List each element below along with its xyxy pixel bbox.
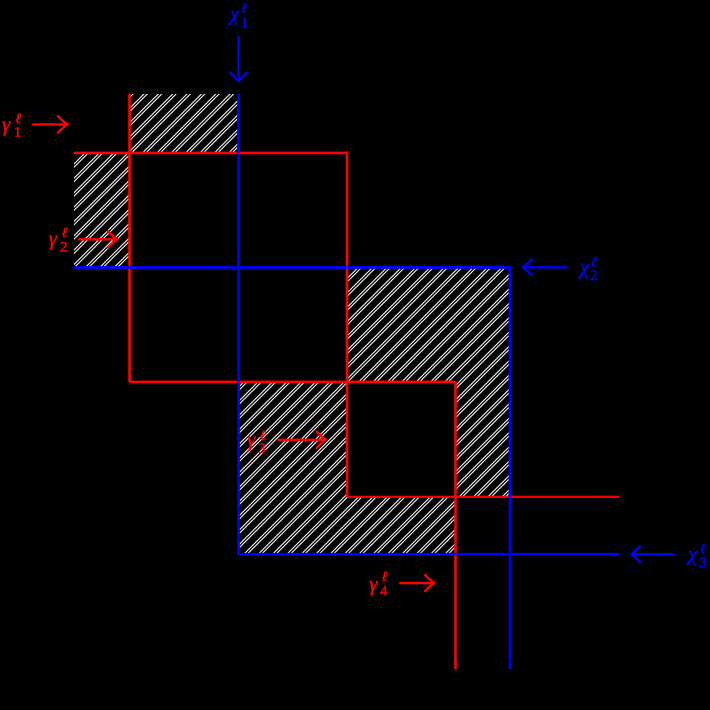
svg-text:4: 4 <box>380 583 388 599</box>
svg-text:1: 1 <box>14 125 22 141</box>
svg-text:3: 3 <box>258 441 266 457</box>
svg-text:γ: γ <box>369 571 378 595</box>
svg-text:γ: γ <box>247 427 256 451</box>
svg-text:χ: χ <box>228 2 240 26</box>
svg-text:χ: χ <box>578 255 590 279</box>
svg-text:2: 2 <box>590 268 598 284</box>
svg-text:1: 1 <box>241 15 249 31</box>
svg-text:γ: γ <box>2 112 11 136</box>
svg-text:γ: γ <box>49 226 58 250</box>
svg-text:χ: χ <box>686 542 698 566</box>
svg-text:2: 2 <box>60 239 68 255</box>
svg-text:3: 3 <box>699 555 707 571</box>
